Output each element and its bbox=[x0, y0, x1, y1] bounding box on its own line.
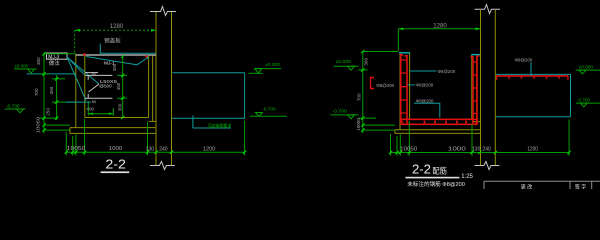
chain1 tick y54 bbox=[44, 53, 76, 55]
floor slab left cap bbox=[69, 128, 71, 134]
rebar right wall inner bar bbox=[471, 57, 474, 124]
level symbol left -0.700 triangle bbox=[17, 109, 24, 113]
right chain tick y125 bbox=[363, 124, 395, 126]
chain1 tick y125 bbox=[44, 124, 70, 126]
bottom dim extension x66 bbox=[65, 132, 67, 156]
platform slab bar ticks bbox=[509, 76, 559, 79]
right chain tick marks bbox=[361, 50, 364, 132]
pit outer right wall bbox=[152, 56, 154, 122]
extension line dotted bbox=[74, 30, 76, 53]
MJ-3 leader 1 bbox=[67, 57, 85, 75]
slab band top right drawing bbox=[395, 129, 481, 131]
pit inner bottom bbox=[85, 117, 149, 119]
angle steel stub bottom bbox=[87, 94, 89, 98]
chain1 tick marks bbox=[42, 52, 45, 132]
pit outline olive: outer left wall bbox=[399, 53, 401, 130]
bottom dim extension x72.7 bbox=[72, 136, 74, 156]
rebar left wall ties bbox=[402, 60, 407, 113]
rebar label 4 leader bbox=[530, 62, 532, 76]
angle steel stub top bbox=[87, 75, 89, 79]
angle steel top line 2 bbox=[85, 72, 98, 74]
rebar label 3 leader bbox=[414, 103, 440, 117]
rd extension x569.1 bbox=[568, 120, 570, 156]
level symbol rd-left -0.700 triangle bbox=[348, 115, 355, 119]
bottom dim extension x84.6 bbox=[84, 119, 86, 156]
svg-text:Φ8@200: Φ8@200 bbox=[416, 99, 434, 104]
svg-text:300: 300 bbox=[36, 57, 41, 65]
title block vertical 1 bbox=[483, 181, 485, 189]
svg-text:10050: 10050 bbox=[36, 116, 41, 133]
platform slab bar bbox=[496, 75, 568, 77]
svg-text:50: 50 bbox=[92, 72, 96, 76]
svg-text:Φ8@200: Φ8@200 bbox=[515, 58, 533, 63]
level symbol right -0.700 triangle bbox=[255, 113, 262, 117]
level symbol left -0.700 line bbox=[5, 108, 26, 110]
rebar label 2 leader bbox=[408, 84, 415, 86]
svg-text:350: 350 bbox=[116, 82, 121, 90]
rd extension x390.5 bbox=[390, 134, 392, 156]
svg-text:700: 700 bbox=[34, 88, 39, 96]
dimension 400 extension left bbox=[87, 101, 89, 116]
svg-text:50: 50 bbox=[92, 100, 96, 104]
title underline right drawing bbox=[405, 177, 459, 179]
chain1 tick y118 bbox=[40, 117, 59, 119]
dimension 1280 line right drawing bbox=[398, 28, 480, 30]
level symbol left +0.000 triangle bbox=[28, 69, 35, 73]
wall break symbol bottom bbox=[150, 162, 175, 170]
pit outline olive: outer right wall bbox=[476, 55, 478, 122]
svg-text:Φ8@200: Φ8@200 bbox=[438, 69, 456, 74]
MJ-3 leader 2 bbox=[67, 57, 99, 84]
svg-text:130: 130 bbox=[472, 147, 481, 153]
svg-text:±0.000: ±0.000 bbox=[336, 59, 352, 64]
dimension 400 extension right bbox=[112, 108, 114, 116]
bottom dim line right drawing bbox=[391, 152, 570, 154]
svg-text:350: 350 bbox=[112, 63, 117, 71]
rebar left wall inner bar bbox=[405, 56, 408, 124]
right chain tick y118 bbox=[358, 117, 376, 119]
bottom dim tick marks bbox=[65, 151, 247, 154]
svg-text:1200: 1200 bbox=[203, 146, 216, 152]
rebar bottom band left hook bbox=[401, 119, 404, 124]
rd extension x397 bbox=[396, 136, 398, 156]
platform top cyan bbox=[172, 72, 244, 74]
inner chain tick top bbox=[117, 74, 127, 76]
ground line -0.700 right of wall bbox=[172, 117, 246, 119]
platform slab bar left hook bbox=[496, 76, 498, 80]
floor slab band bottom bbox=[70, 132, 156, 134]
title underline bbox=[101, 171, 130, 173]
level symbol rd-left +0.000 line bbox=[334, 65, 359, 67]
angle leader diagonal bbox=[89, 84, 100, 92]
level symbol left +0.000 line bbox=[14, 68, 36, 70]
rebar right wall outer bar bbox=[477, 56, 480, 124]
level symbol rd-right +0.000 line bbox=[576, 69, 600, 71]
pit top tick cyan right bbox=[471, 54, 480, 56]
dimension 1280 line (dotted) bbox=[75, 29, 156, 31]
inner chain tick marks bbox=[121, 55, 124, 119]
svg-text:300: 300 bbox=[364, 58, 369, 66]
rebar bottom band right hook bbox=[475, 119, 478, 124]
dimension 1280 arrows bbox=[75, 29, 156, 32]
chain2 tick y79 bbox=[52, 78, 65, 80]
trench bottom bbox=[193, 127, 231, 129]
pit footing step bbox=[149, 120, 156, 122]
level symbol rd-right -0.700 triangle bbox=[580, 103, 587, 107]
pit inner left wall bbox=[84, 55, 86, 117]
rebar bottom band top bar bbox=[401, 118, 478, 120]
svg-text:未标注的钢筋 Φ8@200: 未标注的钢筋 Φ8@200 bbox=[407, 180, 465, 188]
platform right edge cyan right drawing bbox=[570, 74, 572, 116]
svg-text:-0.700: -0.700 bbox=[262, 107, 276, 112]
rebar right wall ties bbox=[474, 62, 477, 114]
svg-text:400: 400 bbox=[86, 107, 94, 113]
rd extension x400.3 bbox=[399, 135, 401, 156]
platform top cyan right drawing bbox=[496, 73, 571, 75]
floor line cyan left bbox=[27, 73, 76, 75]
trench step vertical bbox=[192, 116, 194, 129]
svg-text:-0.700: -0.700 bbox=[6, 103, 20, 108]
wall line left bbox=[155, 12, 157, 166]
extension line right drawing bbox=[397, 29, 399, 51]
svg-text:240: 240 bbox=[159, 146, 168, 152]
svg-text:2-2: 2-2 bbox=[105, 157, 126, 172]
MJ-3 label box bbox=[47, 53, 68, 59]
svg-text:Φ8@200: Φ8@200 bbox=[376, 83, 394, 88]
svg-text:1000: 1000 bbox=[109, 146, 123, 152]
svg-text:做法: 做法 bbox=[49, 59, 60, 67]
svg-text:1200: 1200 bbox=[527, 147, 538, 153]
svg-text:MJ-3: MJ-3 bbox=[48, 54, 59, 60]
level symbol rd-left +0.000 triangle bbox=[348, 66, 355, 70]
pit outer left wall bbox=[75, 54, 77, 128]
title block top line bbox=[484, 180, 600, 182]
level symbol right +0.000 triangle bbox=[255, 69, 262, 73]
svg-text:130: 130 bbox=[146, 146, 155, 152]
level symbol rd-right +0.000 triangle bbox=[579, 70, 586, 74]
ground line right drawing bbox=[496, 116, 571, 118]
cover plate label leader bbox=[100, 44, 156, 54]
rebar bottom band spacer dashes bbox=[425, 121, 467, 124]
svg-text:1:25: 1:25 bbox=[461, 174, 473, 180]
platform right edge cyan bbox=[244, 73, 246, 119]
svg-text:1280: 1280 bbox=[110, 24, 124, 30]
rebar left wall outer bar bbox=[401, 55, 404, 124]
svg-text:10050: 10050 bbox=[67, 146, 86, 152]
pit outline olive: inner left wall bbox=[409, 53, 411, 120]
svg-text:Φ8@200: Φ8@200 bbox=[416, 83, 434, 88]
steel cover plate bbox=[76, 54, 156, 56]
wall break symbol top bbox=[150, 7, 176, 16]
dimension 1280 arrows right drawing bbox=[398, 27, 480, 30]
svg-text:240: 240 bbox=[482, 147, 491, 153]
pit top tick cyan left bbox=[399, 52, 410, 54]
pit outline olive: inner right wall bbox=[471, 55, 473, 120]
svg-text:签 字: 签 字 bbox=[575, 184, 586, 189]
cyan tick y102 bbox=[66, 101, 91, 103]
title block vertical 3 bbox=[591, 181, 593, 189]
dimension 400 line bbox=[88, 113, 113, 115]
title block vertical 2 bbox=[569, 181, 571, 189]
rebar bottom band bottom bar bbox=[401, 123, 478, 125]
pit inner right wall bbox=[148, 56, 150, 118]
svg-text:见结施图要求: 见结施图要求 bbox=[208, 122, 232, 129]
angle steel top line bbox=[85, 74, 112, 76]
svg-text:1280: 1280 bbox=[433, 23, 447, 29]
svg-text:±0.000: ±0.000 bbox=[579, 64, 594, 69]
rd extension x472 bbox=[471, 124, 473, 156]
chain1 tick y74 bbox=[40, 73, 50, 75]
wall line right right-drawing bbox=[494, 10, 496, 166]
plate edge stub bbox=[147, 53, 149, 59]
wall break symbol top right drawing bbox=[475, 5, 501, 14]
level symbol rd-right -0.700 line bbox=[576, 102, 600, 104]
svg-text:1000: 1000 bbox=[448, 146, 466, 152]
level symbol right -0.700 line bbox=[250, 115, 287, 117]
rebar label 2a leader bbox=[410, 70, 437, 72]
bottom dim extension x244.6 bbox=[244, 121, 246, 156]
svg-text:-0.700: -0.700 bbox=[332, 108, 347, 113]
svg-text:2-2: 2-2 bbox=[412, 162, 431, 177]
MJ-3 leader 3 bbox=[67, 57, 86, 101]
chain2 tick y102 bbox=[52, 101, 75, 103]
angle steel bottom line bbox=[85, 97, 112, 99]
dimension 400 arrows bbox=[88, 112, 113, 115]
level symbol rd-left -0.700 line bbox=[331, 114, 359, 116]
inner chain line bbox=[122, 57, 124, 118]
level symbol right +0.000 line bbox=[254, 68, 281, 70]
ground tick at level bbox=[249, 72, 263, 74]
svg-text:钢盖板: 钢盖板 bbox=[104, 37, 121, 45]
dim chain2 line bbox=[56, 75, 58, 120]
bottom dim line bbox=[66, 151, 244, 153]
floor slab band top bbox=[70, 127, 156, 129]
wall break symbol bottom right drawing bbox=[475, 162, 500, 170]
chain2 tick marks bbox=[55, 77, 58, 120]
red stud left bbox=[83, 53, 85, 55]
svg-text:10050: 10050 bbox=[400, 146, 417, 152]
rd bottom dim tick marks bbox=[389, 151, 571, 154]
rebar hook symbol near label bbox=[371, 78, 375, 89]
right chain tick y70 bbox=[358, 69, 367, 71]
pit footing step right drawing bbox=[472, 121, 481, 123]
svg-text:@500: @500 bbox=[99, 84, 112, 89]
svg-text:700: 700 bbox=[356, 93, 361, 101]
svg-text:更 改: 更 改 bbox=[521, 184, 532, 189]
svg-text:350: 350 bbox=[49, 86, 54, 94]
inner chain tick mid bbox=[117, 97, 127, 99]
svg-text:300: 300 bbox=[118, 103, 123, 111]
slab band left cap right drawing bbox=[394, 130, 396, 134]
red stud right bbox=[145, 55, 147, 57]
right chain line bbox=[362, 51, 364, 133]
svg-text:-0.700: -0.700 bbox=[577, 97, 590, 102]
svg-text:±0.000: ±0.000 bbox=[265, 62, 280, 67]
wall line left right-drawing bbox=[480, 10, 482, 166]
right chain tick y51.5 bbox=[363, 51, 399, 53]
MJ-1 leader bbox=[86, 57, 149, 65]
svg-text:±0.000: ±0.000 bbox=[15, 63, 29, 68]
bottom dim extension x75.9 bbox=[75, 135, 77, 156]
platform slab bar right hook bbox=[567, 76, 569, 80]
chain1 tick y130 bbox=[44, 129, 70, 131]
right chain tick y130 bbox=[363, 129, 395, 131]
dim chain1 line bbox=[43, 53, 45, 134]
slab band bottom right drawing bbox=[395, 132, 481, 134]
svg-text:10050: 10050 bbox=[356, 118, 361, 131]
wall line right bbox=[171, 12, 173, 166]
svg-text:250: 250 bbox=[46, 108, 51, 116]
svg-text:配筋: 配筋 bbox=[432, 166, 447, 176]
bottom dim extension x147.5 bbox=[147, 122, 149, 156]
rd extension x409.3 bbox=[408, 121, 410, 156]
